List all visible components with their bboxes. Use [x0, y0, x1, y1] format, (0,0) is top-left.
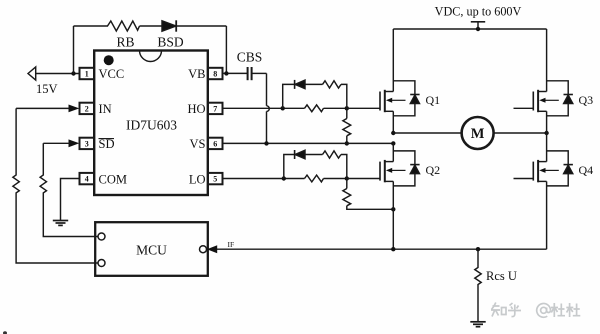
- svg-text:15V: 15V: [36, 82, 58, 96]
- svg-text:Q3: Q3: [579, 93, 594, 107]
- pin 2 box: [80, 103, 95, 114]
- pin 7 box: [208, 103, 223, 114]
- VDC terminal: [477, 22, 479, 29]
- pin-1 marker dot: [104, 55, 114, 65]
- wire IN: [16, 107, 69, 109]
- svg-text:VCC: VCC: [99, 67, 125, 81]
- svg-text:VB: VB: [188, 67, 205, 81]
- transistor Q4: [514, 178, 534, 180]
- node Q2 source rail: [391, 247, 395, 251]
- resistor LO diode branch: [323, 151, 342, 158]
- wire motor right: [494, 132, 547, 134]
- svg-text:RB: RB: [116, 35, 134, 50]
- pin 6 box: [208, 138, 223, 149]
- body diode Q1: [393, 81, 415, 95]
- capacitor CBS: [247, 67, 249, 80]
- node HO branch: [281, 106, 285, 110]
- pin 4 box: [80, 173, 95, 184]
- svg-text:8: 8: [213, 70, 217, 79]
- node Q2 source tie: [391, 207, 395, 211]
- wire to Q1 gate node: [324, 107, 347, 109]
- svg-text:COM: COM: [99, 172, 127, 186]
- wire to Q2 gate node: [324, 178, 347, 180]
- pin 8 box: [208, 68, 223, 79]
- wire Q1 gate lead: [347, 107, 380, 109]
- svg-text:Q2: Q2: [426, 163, 441, 177]
- arrow into pin3 SD: [69, 139, 80, 147]
- wire CBS to VS drop: [252, 72, 267, 74]
- resistor RB: [108, 21, 140, 31]
- transistor Q1: [379, 92, 381, 111]
- MCU terminal right IF: [200, 246, 207, 253]
- Q4 source wire: [546, 181, 548, 249]
- diode LO branch: [294, 150, 296, 159]
- wire branch to gate node: [341, 84, 347, 108]
- svg-text:LO: LO: [189, 172, 206, 186]
- svg-text:Q4: Q4: [579, 163, 594, 177]
- Q2 drain wire: [392, 143, 394, 161]
- VDC rail: [393, 28, 546, 30]
- svg-text:2: 2: [85, 105, 89, 114]
- ground Rcs: [470, 321, 485, 323]
- node Rcs tap: [476, 247, 480, 251]
- transistor Q3: [514, 107, 534, 109]
- wire SD down with resistor R-SD: [40, 143, 98, 236]
- node VDC tap: [476, 27, 480, 31]
- wire drop to VB node: [225, 26, 227, 73]
- Q1 drain wire: [392, 111, 394, 133]
- wire pin8 VB: [223, 72, 248, 74]
- node Q2 gate: [345, 176, 349, 180]
- wire diode to resistor: [305, 83, 323, 85]
- resistor Q1 gate-source: [343, 119, 351, 136]
- svg-text:M: M: [471, 126, 485, 142]
- svg-text:1: 1: [85, 70, 89, 79]
- svg-text:7: 7: [213, 105, 217, 114]
- wire resistor to VS row: [346, 136, 348, 144]
- wire IN down with resistor R-IN: [13, 108, 98, 263]
- wire diode to resistor: [305, 154, 323, 156]
- body diode Q3: [547, 81, 569, 95]
- Q2 source wire: [392, 181, 394, 249]
- node VS/CBS: [264, 141, 268, 145]
- svg-text:Q1: Q1: [426, 93, 441, 107]
- resistor HO diode branch: [323, 81, 342, 88]
- wire hop over HO: [267, 106, 270, 112]
- wire gate node down: [346, 108, 348, 118]
- wire COM to ground: [61, 179, 80, 221]
- wire up to LO diode branch: [284, 155, 294, 179]
- wire CBS drop upper: [266, 73, 268, 105]
- wire RB to BSD: [140, 25, 163, 27]
- wire rail to RB: [74, 25, 109, 27]
- node Q1 gate: [345, 106, 349, 110]
- node phase left motor: [391, 131, 395, 135]
- svg-text:6: 6: [213, 140, 217, 149]
- transistor Q2: [379, 162, 381, 181]
- wire up to RB rail: [73, 26, 75, 74]
- glyph du 2: [566, 303, 580, 317]
- wire pin5 LO row: [223, 178, 305, 180]
- node LO branch: [282, 176, 286, 180]
- arrow into pin2 IN: [69, 105, 80, 113]
- node VS pulldown: [345, 141, 349, 145]
- 15V source arrow: [28, 67, 36, 80]
- MCU box: [95, 222, 208, 276]
- wire pin7 HO row: [223, 107, 305, 109]
- node VS/phase: [391, 141, 395, 145]
- svg-text:Rcs U: Rcs U: [486, 269, 517, 283]
- glyph zhi: [491, 303, 500, 317]
- wire BSD to VB drop: [176, 25, 226, 27]
- wire pin6 VS row: [223, 142, 394, 144]
- resistor Rcs U: [475, 249, 481, 322]
- svg-text:5: 5: [213, 175, 217, 184]
- resistor HO series: [305, 105, 324, 112]
- bottom current rail: [217, 248, 547, 250]
- svg-text:IF: IF: [228, 240, 235, 249]
- wire resistor to source: [347, 206, 394, 210]
- node phase right: [544, 131, 548, 135]
- corner speck: [3, 331, 7, 334]
- IC notch: [140, 51, 162, 62]
- svg-text:VS: VS: [190, 137, 206, 151]
- wire CBS drop lower: [266, 111, 268, 143]
- diode HO branch: [294, 80, 296, 89]
- wire branch to gate node: [341, 155, 347, 179]
- diode BSD: [162, 21, 176, 31]
- MCU terminal bottom-left: [98, 260, 105, 267]
- svg-text:CBS: CBS: [237, 50, 263, 65]
- pin 3 box: [80, 138, 95, 149]
- wire motor left: [393, 132, 461, 134]
- wire SD: [43, 142, 69, 144]
- MCU terminal top-left: [98, 233, 105, 240]
- wire 15V to VCC pin1: [36, 73, 80, 75]
- arrow IF into MCU: [207, 245, 217, 253]
- motor M: [462, 117, 494, 149]
- overline SD: [99, 138, 115, 140]
- ground COM: [53, 220, 68, 222]
- pin 5 box: [208, 173, 223, 184]
- svg-text:HO: HO: [187, 102, 205, 116]
- wire Q2 gate lead: [347, 178, 380, 180]
- glyph hu: [508, 303, 521, 317]
- svg-text:ID7U603: ID7U603: [126, 118, 177, 133]
- wire up to HO diode branch: [283, 84, 294, 108]
- IC U1 body ID7U603: [94, 51, 208, 196]
- watermark 知乎 @杜杜: [491, 303, 580, 318]
- resistor Q2 gate-source: [343, 189, 351, 206]
- svg-text:BSD: BSD: [157, 35, 184, 50]
- svg-text:4: 4: [85, 175, 89, 184]
- wire gate node down: [346, 179, 348, 189]
- pin 1 box: [80, 68, 95, 79]
- body diode Q2: [393, 151, 415, 165]
- svg-text:MCU: MCU: [136, 243, 167, 258]
- svg-text:IN: IN: [99, 102, 112, 116]
- body diode Q4: [547, 151, 569, 165]
- node VB junction: [224, 71, 228, 75]
- resistor LO series: [305, 175, 324, 182]
- glyph at: [541, 307, 547, 313]
- glyph du 1: [551, 303, 565, 317]
- svg-text:3: 3: [85, 140, 89, 149]
- node 15V/RB junction: [71, 71, 75, 75]
- svg-text:VDC, up to 600V: VDC, up to 600V: [435, 5, 522, 19]
